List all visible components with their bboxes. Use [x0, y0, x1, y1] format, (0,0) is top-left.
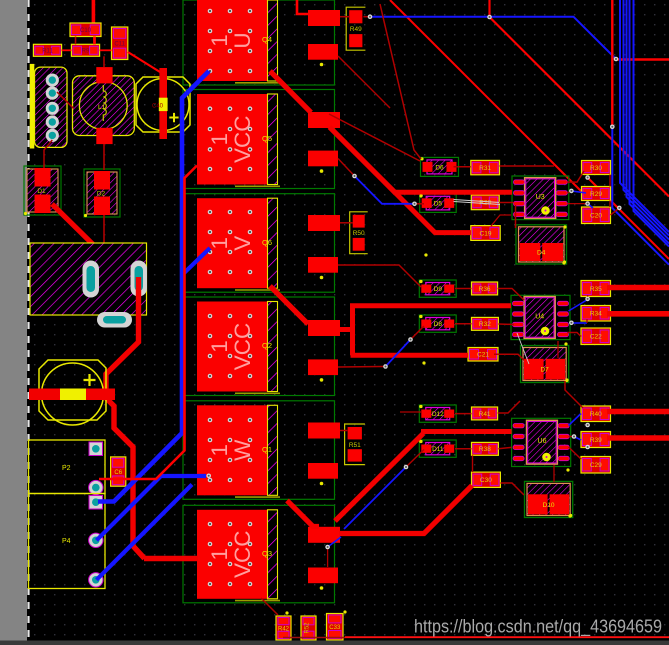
- wire: blue net below via: [612, 127, 669, 265]
- via: [617, 206, 622, 211]
- diode D5: [420, 194, 457, 213]
- wire: D8 to R32: [455, 323, 472, 325]
- svg-text:Q4: Q4: [262, 35, 272, 44]
- svg-text:VCC: VCC: [230, 323, 255, 371]
- wire: C20 via net: [611, 208, 620, 215]
- L1 pad top: [96, 67, 112, 83]
- diode D9: [419, 280, 456, 297]
- wire: thick bus Q5 to D5 row: [330, 127, 397, 194]
- wire: U6 to D10: [553, 465, 555, 482]
- J1 pin 5: [46, 129, 59, 142]
- wire: net Q4 pad2: [338, 56, 390, 108]
- svg-text:D6: D6: [435, 164, 444, 171]
- wire: red vertical to C10: [92, 0, 96, 24]
- wire: Q4 pad1 entry: [297, 0, 308, 14]
- wire: Q4 pad1 to R49: [340, 16, 350, 18]
- Q4 pad text: [207, 32, 255, 48]
- wire: blue main vertical: [98, 71, 209, 502]
- resistor R29: [582, 187, 611, 201]
- C40 polarity bar: [159, 68, 167, 139]
- connector J1 yellow bar: [30, 64, 35, 149]
- wire: blue bus line 1: [620, 0, 669, 232]
- svg-text:D10: D10: [543, 502, 555, 509]
- wire: R28 to U3: [499, 202, 514, 204]
- transistor Q6 tab pad: [197, 198, 268, 288]
- wire: R49 top to via: [363, 16, 370, 18]
- pin pad Q5 gate: [308, 112, 340, 128]
- capacitor C6: [111, 457, 126, 486]
- H1 slot B: [131, 261, 148, 297]
- diode D2: [84, 169, 120, 217]
- transistor Q4 tab pad: [197, 0, 268, 81]
- wire: D12 to R41: [455, 413, 472, 415]
- svg-text:Q6: Q6: [262, 238, 272, 247]
- via: [487, 15, 492, 20]
- transistor Q5 hatched strip: [268, 94, 278, 185]
- Q3 pad text: [207, 531, 255, 579]
- svg-text:R29: R29: [590, 191, 602, 198]
- wire: thick Q4 hatch to Q5 pad diag: [270, 71, 311, 113]
- wire: blue bus line 3: [627, 0, 669, 240]
- resistor R51: [345, 424, 365, 465]
- pin pad Q3 gate: [308, 527, 340, 543]
- svg-text:C6: C6: [114, 470, 122, 476]
- svg-text:D11: D11: [432, 446, 444, 453]
- C40 stripe: [159, 98, 168, 111]
- svg-text:1: 1: [207, 133, 232, 146]
- wire: Q6 pad2 to D9: [338, 265, 421, 287]
- via: [614, 57, 619, 62]
- wire: D6 to R31: [454, 166, 471, 168]
- wire: thick Q6 to Q2 pads diag: [270, 286, 308, 324]
- capacitor C20: [582, 207, 611, 224]
- via: [585, 445, 590, 450]
- svg-text:W: W: [230, 439, 255, 461]
- connector P2: [29, 440, 106, 494]
- capacitor C29: [581, 457, 611, 474]
- wire R11-R9: [62, 49, 72, 51]
- svg-text:C29: C29: [590, 462, 602, 469]
- svg-text:U4: U4: [535, 313, 544, 320]
- via: [404, 465, 409, 470]
- svg-text:Q3: Q3: [262, 549, 272, 558]
- wire: blue bus line 5: [634, 0, 669, 247]
- transistor Q3 courtyard: [183, 505, 335, 603]
- wire: U6 right nets: [569, 414, 582, 426]
- svg-text:V: V: [230, 236, 255, 251]
- pin pad Q1 source: [308, 463, 338, 479]
- wire: D9 to R36: [455, 288, 472, 290]
- via: [569, 189, 574, 194]
- wire: blue branch to Q6: [183, 248, 210, 274]
- svg-text:R35: R35: [590, 286, 602, 293]
- transistor Q4 courtyard: [183, 0, 335, 85]
- wire: long red diagonal 3: [390, 0, 588, 198]
- svg-text:R32: R32: [479, 321, 491, 328]
- wire R9-L1: [103, 56, 105, 67]
- svg-text:D7: D7: [540, 367, 549, 374]
- wire: thick Q1 to Q3 pads diag: [287, 501, 319, 527]
- svg-text:Q5: Q5: [262, 134, 272, 143]
- wire D1 to slot thick: [52, 204, 138, 277]
- resistor R41: [472, 407, 498, 420]
- H1 slot A: [83, 261, 100, 298]
- wire: net Q5 pad1 to D6: [329, 114, 420, 161]
- svg-text:P2: P2: [62, 465, 71, 472]
- Q1 pad text: [207, 439, 255, 461]
- svg-text:U: U: [230, 32, 255, 48]
- via: [569, 321, 574, 326]
- capacitor C30: [472, 472, 501, 487]
- svg-text:C11: C11: [114, 42, 125, 48]
- resistor R36: [472, 282, 498, 295]
- via: [610, 125, 615, 130]
- via: [383, 364, 388, 369]
- J1 pin 3: [46, 102, 59, 115]
- op-amp/IC U6: [512, 418, 571, 466]
- diode D11: [419, 440, 456, 457]
- wire: thick branch to C19: [396, 194, 471, 233]
- resistor R34: [581, 306, 611, 322]
- wire: thick bus to C21: [350, 331, 355, 355]
- Q3 pad grid dots: [208, 522, 253, 587]
- pin pad Q4 gate: [308, 10, 340, 26]
- svg-text:R39: R39: [590, 437, 602, 444]
- C41 plus: [84, 374, 96, 386]
- op-amp/IC U3: [512, 176, 569, 220]
- svg-text:1: 1: [207, 340, 232, 353]
- J1 pin 4: [46, 115, 59, 128]
- wire L1-D2: [103, 144, 105, 170]
- board edge dashed: [27, 0, 29, 641]
- wire: red vertical net x612: [611, 0, 613, 127]
- Q5 pad grid dots: [208, 106, 253, 171]
- diode D12: [419, 405, 456, 422]
- wire: red net from via to right edge: [618, 58, 669, 60]
- svg-text:Q2: Q2: [262, 341, 272, 350]
- wire: U3 right nets: [567, 171, 584, 182]
- svg-text:C19: C19: [480, 230, 492, 237]
- inductor L1 body: [73, 76, 135, 136]
- wire: thick R35 to edge: [607, 285, 669, 291]
- svg-text:R34: R34: [590, 311, 602, 318]
- P4 pin2: [89, 533, 103, 547]
- svg-text:C30: C30: [480, 477, 492, 484]
- wire: long red diagonal 2: [588, 178, 669, 260]
- transistor Q1 courtyard: [183, 401, 335, 500]
- resistor R30: [582, 161, 611, 175]
- wire: thick red main trace left: [106, 277, 145, 559]
- wire J1-D1: [44, 140, 52, 168]
- wire: R32 to U4: [498, 323, 513, 326]
- svg-text:L1: L1: [98, 104, 106, 111]
- diode D10: [525, 481, 573, 517]
- svg-text:R31: R31: [479, 165, 491, 172]
- wire: blue via to via D8: [386, 340, 411, 367]
- via: [585, 423, 590, 428]
- svg-text:1: 1: [207, 237, 232, 250]
- wire: R50 to Q6 pad: [340, 222, 353, 224]
- wire C10-R9 left: [75, 37, 77, 45]
- capacitor C11: [112, 27, 128, 60]
- wire: thick bus Q2 to U4: [340, 327, 353, 332]
- P4 pin3: [89, 573, 103, 587]
- svg-text:R52: R52: [305, 622, 311, 634]
- C40 plus: [169, 113, 178, 122]
- transistor Q5 courtyard: [183, 90, 335, 189]
- wire: long red diagonal 1: [488, 0, 490, 17]
- resistor R9: [71, 44, 99, 56]
- Q2 pad grid dots: [208, 314, 253, 379]
- C41 stripe: [60, 389, 86, 401]
- svg-text:C21: C21: [477, 352, 489, 359]
- wire R9-C11: [100, 49, 112, 51]
- wire: U4 right nets: [569, 300, 588, 312]
- diode D4: [516, 225, 567, 264]
- capacitor C41 outline: [39, 360, 106, 420]
- capacitor C21: [468, 348, 498, 362]
- wire: C21 to D7: [494, 354, 524, 360]
- L1 pad bottom: [96, 128, 112, 144]
- wire: Q3 pad via net: [327, 547, 329, 567]
- Q6 pad grid dots: [208, 210, 253, 275]
- svg-text:D9: D9: [434, 286, 443, 293]
- ratsnest D5-R28: [454, 200, 501, 205]
- via: [585, 201, 590, 206]
- wire: bottom net line: [283, 637, 345, 639]
- capacitor C33: [327, 614, 344, 641]
- P2 pin1 square: [89, 442, 103, 456]
- wire: R29-C20 link: [609, 201, 611, 208]
- transistor Q2 hatched strip: [268, 302, 278, 392]
- svg-text:C33: C33: [329, 625, 341, 631]
- C41 bar: [29, 389, 115, 401]
- diode D6: [420, 157, 458, 176]
- resistor R50: [350, 212, 368, 254]
- svg-text:D4: D4: [537, 250, 546, 257]
- svg-text:VCC: VCC: [230, 531, 255, 579]
- transistor Q2 courtyard: [183, 297, 335, 396]
- wire: blue Q3pad1 to via: [344, 467, 406, 529]
- pin1 marks: [419, 194, 422, 197]
- wire: blue bus line 2: [624, 0, 669, 236]
- wire: blue via to D5: [355, 176, 415, 204]
- pin pad Q5 source: [308, 151, 338, 167]
- heatsink pad H1: [30, 243, 147, 315]
- J1 pin 2: [46, 87, 59, 100]
- Q5 pad text: [207, 115, 255, 163]
- resistor R49: [346, 7, 365, 50]
- wire C11 to C40: [128, 52, 160, 72]
- wire: thick bus to U6: [335, 433, 423, 521]
- pin pad Q3 source: [308, 568, 338, 584]
- wire: C30 to D10: [500, 483, 524, 495]
- H1 slot C: [97, 312, 132, 328]
- transistor Q1 tab pad: [197, 405, 268, 495]
- wire: steep net to D6: [380, 4, 421, 159]
- svg-text:D1: D1: [37, 188, 46, 195]
- Q1 pad grid dots: [208, 418, 253, 483]
- svg-text:R42: R42: [278, 626, 290, 632]
- svg-text:https://blog.csdn.net/qq_43694: https://blog.csdn.net/qq_43694659: [414, 616, 662, 638]
- wire: R38-C30 link: [472, 455, 474, 472]
- svg-text:R41: R41: [479, 411, 491, 418]
- pin pad Q6 source: [308, 257, 338, 273]
- resistor R31: [471, 160, 500, 174]
- svg-text:D2: D2: [97, 191, 106, 198]
- via: [585, 297, 590, 302]
- capacitor C10: [70, 23, 101, 37]
- wire: R38 to U6: [498, 447, 511, 448]
- svg-text:C22: C22: [590, 334, 602, 341]
- diode D8: [419, 315, 456, 332]
- wire: thick bus Q3 to C30: [339, 486, 472, 534]
- svg-text:R11: R11: [42, 49, 53, 55]
- svg-text:D12: D12: [432, 411, 444, 418]
- svg-text:C20: C20: [590, 213, 602, 220]
- wire: R51 to Q1 pad: [340, 430, 347, 432]
- resistor R32: [472, 317, 499, 330]
- transistor Q2 tab pad: [197, 302, 268, 392]
- transistor Q6 hatched strip: [268, 198, 278, 288]
- pin pad Q6 gate: [308, 215, 340, 231]
- resistor R35: [581, 281, 611, 297]
- wire: D11 to R38: [455, 448, 472, 450]
- resistor R42: [276, 616, 291, 640]
- resistor R39: [581, 432, 611, 448]
- svg-text:R30: R30: [590, 165, 602, 172]
- pin pad Q1 gate: [308, 423, 340, 439]
- op-amp/IC U4: [511, 295, 570, 339]
- capacitor C19: [471, 226, 500, 241]
- connector P4: [29, 494, 106, 589]
- svg-text:1: 1: [207, 444, 232, 457]
- wire: Q2 pad2 to via: [338, 366, 386, 369]
- wire: Q5 pad2 to via: [338, 159, 355, 177]
- transistor Q3 tab pad: [197, 510, 268, 599]
- ratsnest U4-D7: [517, 333, 529, 364]
- wire: thick R39 to edge: [607, 435, 669, 441]
- wire: thick R34 to edge: [607, 311, 669, 317]
- diode D1: [24, 166, 61, 215]
- transistor Q3 hatched strip: [268, 510, 278, 599]
- via: [412, 202, 417, 207]
- pin pad Q4 source: [308, 44, 338, 60]
- via: [572, 434, 577, 439]
- wire D2-heatsink: [103, 215, 105, 243]
- wire: Q3 to R42: [261, 598, 278, 615]
- resistor R38: [472, 442, 499, 455]
- wire: R31 right to diagonal: [500, 165, 555, 167]
- wire: thick red to Q3 tab: [144, 556, 198, 561]
- wire C10-R9 right: [93, 37, 96, 45]
- svg-text:R51: R51: [349, 442, 361, 449]
- svg-text:R50: R50: [353, 230, 365, 237]
- Q2 pad text: [207, 323, 255, 371]
- resistor R52: [301, 616, 316, 640]
- Q4 pad grid dots: [208, 9, 253, 74]
- Q6 pad text: [207, 236, 255, 251]
- svg-text:Q1: Q1: [262, 445, 272, 454]
- P4 pin1 square: [89, 496, 103, 510]
- wire: red P2 net: [99, 166, 197, 480]
- transistor Q4 hatched strip: [268, 0, 278, 81]
- resistor R28: [471, 195, 499, 210]
- transistor Q5 tab pad: [197, 94, 268, 185]
- svg-text:1: 1: [207, 34, 232, 47]
- wire: R41 right diag: [498, 401, 520, 413]
- wire: blue P4 bottom diagonal: [97, 485, 193, 580]
- wire: R36 to U4: [498, 289, 524, 301]
- svg-text:P4: P4: [62, 538, 71, 545]
- svg-text:1: 1: [207, 548, 232, 561]
- wire: D12 left net: [400, 411, 422, 413]
- pin pad Q2 source: [308, 359, 338, 375]
- diode D7: [521, 346, 569, 383]
- resistor R40: [581, 406, 611, 422]
- via: [368, 14, 373, 19]
- wire: blue bus line 4: [630, 0, 669, 244]
- wire: blue net top: [370, 17, 616, 59]
- P2 pin2: [89, 480, 103, 494]
- wire: C19 to U3: [491, 215, 511, 226]
- wire: blue P4 mid diagonal: [97, 476, 207, 540]
- J1 pin 1: [46, 74, 59, 87]
- wire: R30-R29 link: [609, 175, 611, 187]
- via: [352, 174, 357, 179]
- wire: thick R40 to edge: [607, 409, 669, 415]
- svg-text:C40: C40: [152, 104, 164, 110]
- svg-text:D5: D5: [434, 201, 443, 208]
- svg-text:R49: R49: [350, 26, 362, 33]
- transistor Q1 hatched strip: [268, 405, 278, 495]
- connector J1 body: [35, 67, 68, 147]
- capacitor C40 outline: [136, 77, 190, 132]
- via: [206, 474, 211, 479]
- wire: D7 to R40: [565, 381, 583, 408]
- svg-text:R36: R36: [479, 286, 491, 293]
- via: [325, 545, 330, 550]
- pin pad Q2 gate: [308, 320, 340, 336]
- resistor R11: [33, 44, 61, 56]
- capacitor C22: [581, 328, 611, 345]
- via: [408, 337, 413, 342]
- svg-text:R9: R9: [82, 49, 90, 55]
- svg-text:U6: U6: [538, 438, 547, 445]
- gray side panel: [0, 0, 27, 645]
- wire: U4 to D7 right: [557, 341, 559, 358]
- wire J1-L1: [57, 92, 74, 108]
- via: [585, 175, 590, 180]
- svg-text:R38: R38: [479, 446, 491, 453]
- svg-text:VCC: VCC: [230, 115, 255, 163]
- svg-text:R40: R40: [590, 411, 602, 418]
- bottom status bar: [0, 641, 669, 645]
- svg-text:D8: D8: [434, 321, 443, 328]
- L1 symbol: [103, 85, 106, 121]
- svg-text:C10: C10: [80, 28, 92, 34]
- transistor Q6 courtyard: [183, 194, 335, 293]
- svg-text:U3: U3: [536, 194, 545, 201]
- wire: U3 to D4: [515, 205, 517, 228]
